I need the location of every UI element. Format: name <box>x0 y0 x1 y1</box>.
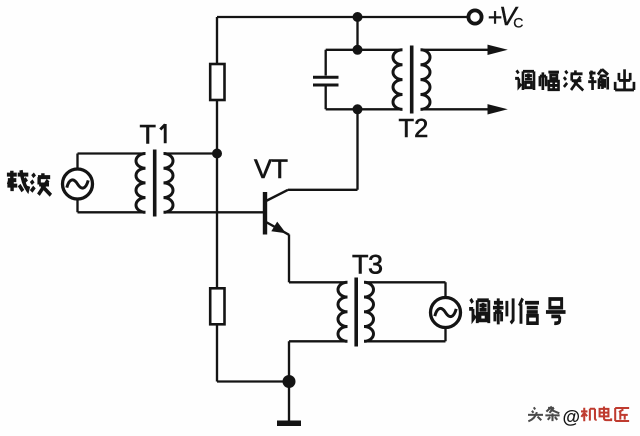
label 载波 carrier text <box>7 170 51 195</box>
capacitor C plates <box>313 77 339 85</box>
arrow output bottom <box>488 104 508 114</box>
wire T3 right loop <box>364 282 446 341</box>
wire top supply rail <box>217 16 467 18</box>
transformer T1 secondary winding <box>164 154 174 213</box>
transformer T1 primary winding <box>136 154 146 213</box>
wire T3 left bottom lead <box>289 341 348 381</box>
watermark 头条@机电匠 <box>528 407 630 427</box>
ground symbol <box>277 420 301 426</box>
node junction top rail <box>353 12 363 22</box>
transistor Q1 emitter stroke <box>266 222 289 235</box>
transformer T3 core <box>354 278 358 347</box>
label 调制信号 modulation text <box>469 298 565 324</box>
wire emitter lead down <box>288 235 290 283</box>
transistor Q1 collector stroke <box>266 190 288 201</box>
resistor R1 <box>210 64 224 100</box>
transformer T2 primary winding <box>393 50 403 110</box>
wire T3 left top lead <box>289 281 348 283</box>
transformer T2 core <box>410 46 414 114</box>
wire ground stem <box>288 382 290 421</box>
svg-text:C: C <box>513 15 523 31</box>
source G1 carrier circle <box>63 169 93 199</box>
transformer T3 secondary winding <box>364 282 374 341</box>
svg-text:VT: VT <box>254 154 288 184</box>
node junction T1 secondary top <box>212 149 222 159</box>
node junction tank bottom <box>353 104 363 114</box>
wire left vertical bias chain <box>216 17 218 382</box>
transformer T2 secondary winding <box>421 50 431 110</box>
svg-text:T3: T3 <box>352 249 383 279</box>
wire node branch to tank <box>356 17 358 50</box>
svg-text:@: @ <box>563 407 581 427</box>
arrow output top <box>488 45 508 55</box>
transistor Q1 emitter arrowhead <box>271 222 286 234</box>
wire carrier loop bottom <box>78 200 146 213</box>
wire tank left branch with capacitor <box>326 50 358 110</box>
resistor R2 <box>210 288 224 324</box>
transformer T3 primary winding <box>338 282 348 341</box>
terminal +Vc open circle <box>468 10 481 23</box>
wire T1 secondary top to node <box>164 152 218 154</box>
label 调幅波输出 output text <box>515 69 634 90</box>
node junction tank top <box>353 45 363 55</box>
source G1 sine <box>67 180 88 188</box>
svg-text:T: T <box>140 120 157 150</box>
transistor Q1 base bar <box>263 192 267 235</box>
wire bottom rail to ground node <box>217 380 289 382</box>
source G2 sine <box>435 308 456 316</box>
wire base lead <box>164 211 264 213</box>
svg-text:T2: T2 <box>399 115 429 143</box>
wire carrier loop top <box>78 154 146 170</box>
wire T2 primary leads <box>358 50 403 110</box>
node junction ground <box>283 375 296 388</box>
transformer T1 core <box>153 150 157 217</box>
source G2 modulation circle <box>431 298 461 328</box>
wire T2 secondary output leads <box>421 50 490 110</box>
wire collector lead <box>288 109 358 190</box>
